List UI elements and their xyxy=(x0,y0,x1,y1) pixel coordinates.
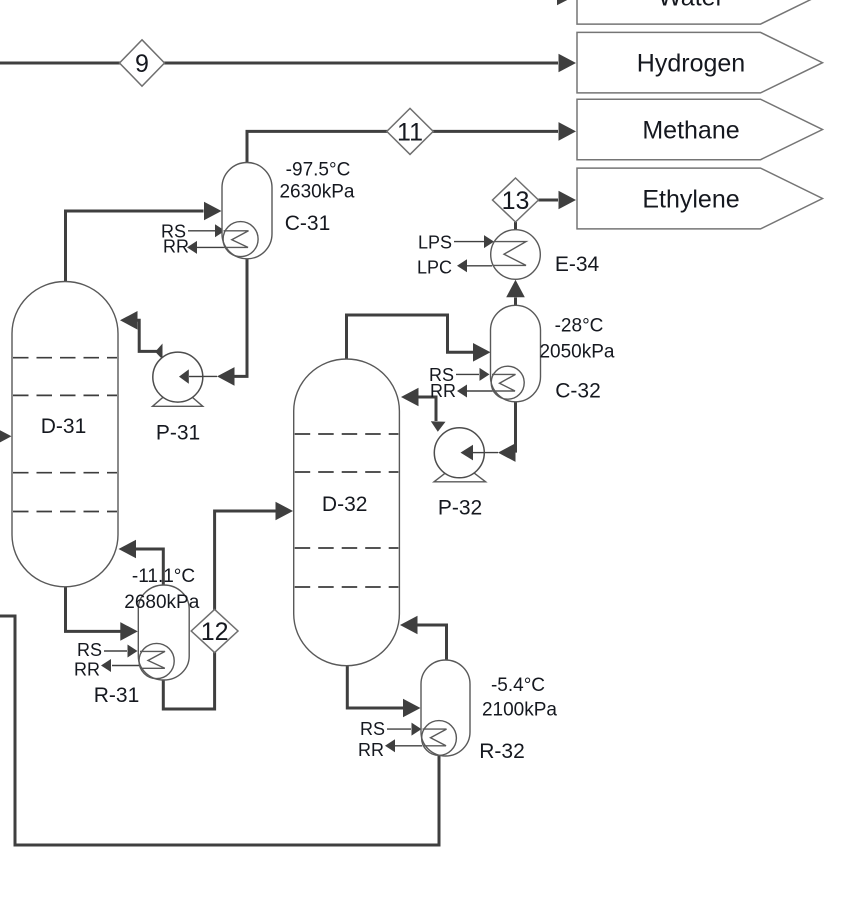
arrowhead stream 11 into Methane xyxy=(559,122,577,141)
node diamond 9 xyxy=(120,40,165,86)
arrowhead into C-31 feed xyxy=(204,202,222,221)
wire stream 9 to Hydrogen xyxy=(0,62,558,65)
wire RR from C-32 coil xyxy=(467,390,492,392)
pump P-31 xyxy=(153,352,203,402)
wire C-32 overhead to E-34 xyxy=(514,298,517,307)
wire R-31 vapor return to D-31 xyxy=(136,549,164,586)
arrowhead RS R-31 xyxy=(128,645,138,658)
svg-text:C-31: C-31 xyxy=(285,212,331,235)
arrowhead LPC xyxy=(457,259,467,272)
svg-text:Methane: Methane xyxy=(642,117,739,145)
wire stream 12 R-31 bottoms to D-32 feed xyxy=(163,511,276,709)
svg-text:2100kPa: 2100kPa xyxy=(482,700,557,721)
wire P-31 discharge to D-31 reflux xyxy=(137,320,162,351)
arrowhead into P-31 inlet xyxy=(217,367,235,386)
arrowhead RR R-31 xyxy=(101,659,111,672)
svg-text:C-32: C-32 xyxy=(555,380,601,403)
pump P-32 internal line and arrow xyxy=(473,452,484,454)
arrowhead RS R-32 xyxy=(412,723,422,736)
trays D-31 xyxy=(13,357,117,359)
svg-text:P-31: P-31 xyxy=(156,422,200,445)
arrowhead RS C-31 xyxy=(215,224,225,237)
banner Methane xyxy=(577,99,823,160)
svg-text:12: 12 xyxy=(201,618,229,646)
svg-text:-11.1°C: -11.1°C xyxy=(132,566,195,587)
wire RS into C-32 coil xyxy=(456,373,479,375)
reboiler vessel R-31 xyxy=(138,585,189,680)
wire E-34 to diamond 13 xyxy=(514,222,517,231)
svg-text:Hydrogen: Hydrogen xyxy=(637,50,745,78)
arrowhead P-32 reflux into D-32 xyxy=(401,388,419,407)
arrowhead D-32 bottoms into R-32 xyxy=(403,699,421,718)
svg-text:D-32: D-32 xyxy=(322,493,368,516)
wire RR from R-32 coil xyxy=(395,745,422,747)
wire P-32 discharge to D-32 reflux xyxy=(418,397,436,421)
svg-text:2680kPa: 2680kPa xyxy=(124,592,199,613)
wire C-32 bottoms to P-32 xyxy=(514,402,517,453)
banner Water xyxy=(577,0,823,24)
wire P-32 inlet thin xyxy=(474,452,498,454)
arrowhead P-32 discharge small SE xyxy=(431,421,446,432)
arrowhead LPS xyxy=(484,235,494,248)
wire LPS into E-34 xyxy=(454,241,484,243)
svg-text:D-31: D-31 xyxy=(41,415,87,438)
condenser vessel C-32 xyxy=(491,305,541,402)
arrowhead water inlet fragment xyxy=(557,0,575,5)
arrowhead RS C-32 xyxy=(480,368,490,381)
wire C-31 bottoms to P-31 xyxy=(234,258,247,376)
svg-text:-97.5°C: -97.5°C xyxy=(286,160,351,181)
wire stream 11 C-31 overhead to Methane xyxy=(247,131,558,164)
wire R-32 vapor return to D-32 xyxy=(418,625,447,661)
arrowhead RR R-32 xyxy=(385,739,395,752)
arrowhead RR C-32 xyxy=(457,385,467,398)
arrowhead into C-32 feed xyxy=(473,343,491,362)
svg-text:R-32: R-32 xyxy=(479,740,525,763)
condenser vessel C-31 xyxy=(222,163,272,259)
svg-text:RR: RR xyxy=(430,381,456,401)
svg-text:Water: Water xyxy=(658,0,724,12)
banner Hydrogen xyxy=(577,32,823,93)
coil circle C-32 xyxy=(491,366,524,399)
banner Ethylene xyxy=(577,168,823,229)
pump P-31 base xyxy=(153,397,203,407)
pump P-32 base xyxy=(434,473,486,482)
wire RR from C-31 coil xyxy=(197,246,224,248)
reboiler vessel R-32 xyxy=(421,660,470,756)
arrowhead D-31 bottoms into R-31 xyxy=(120,622,138,641)
wire D-31 bottoms to R-31 xyxy=(66,586,121,631)
wire RS into R-31 coil xyxy=(104,650,127,652)
column D-32 xyxy=(294,359,400,666)
wire P-31 inlet thin xyxy=(189,375,217,377)
svg-text:RR: RR xyxy=(74,660,100,680)
svg-text:P-32: P-32 xyxy=(438,497,482,520)
svg-text:RR: RR xyxy=(358,740,384,760)
arrowhead R-32 vapor into D-32 xyxy=(400,616,418,635)
wire RS into C-31 coil xyxy=(188,230,215,232)
wire D-32 bottoms to R-32 xyxy=(347,665,403,708)
svg-text:-28°C: -28°C xyxy=(555,316,604,337)
wire D-32 overhead to C-32 xyxy=(347,315,474,360)
svg-text:2630kPa: 2630kPa xyxy=(279,182,354,203)
wire R-32 bottoms product exit xyxy=(0,616,439,845)
svg-text:E-34: E-34 xyxy=(555,253,600,276)
wire D-31 overhead to C-31 xyxy=(66,211,204,283)
svg-text:R-31: R-31 xyxy=(94,684,140,707)
pump P-31 internal line and arrow xyxy=(189,376,203,378)
arrowhead stream 9 into Hydrogen xyxy=(559,54,577,73)
wire stream 13 diamond to Ethylene xyxy=(539,199,559,202)
arrowhead C-32 overhead into E-34 xyxy=(506,280,525,298)
wire RS into R-32 coil xyxy=(387,728,411,730)
node diamond 13 xyxy=(493,178,539,222)
svg-text:RS: RS xyxy=(360,719,385,739)
node diamond 11 xyxy=(387,108,433,154)
arrowhead pump P-31 center xyxy=(179,369,191,385)
heat exchanger E-34 xyxy=(491,230,541,280)
column D-31 xyxy=(12,282,118,587)
arrowhead stream 12 into D-32 xyxy=(276,502,294,521)
trays D-32 xyxy=(295,433,399,435)
svg-text:LPS: LPS xyxy=(418,233,452,253)
arrowhead RR C-31 xyxy=(187,241,197,254)
arrowhead pump P-32 center xyxy=(460,445,472,461)
arrowhead R-31 vapor into D-31 xyxy=(119,540,137,559)
svg-text:2050kPa: 2050kPa xyxy=(539,342,614,363)
arrowhead stream 13 into Ethylene xyxy=(559,191,577,210)
svg-text:RS: RS xyxy=(77,640,102,660)
node diamond 12 xyxy=(191,609,238,652)
svg-text:-5.4°C: -5.4°C xyxy=(491,675,545,696)
svg-text:11: 11 xyxy=(397,118,423,146)
svg-text:RR: RR xyxy=(163,237,189,257)
wire LPC from E-34 xyxy=(467,265,492,267)
svg-text:13: 13 xyxy=(502,187,530,215)
svg-text:LPC: LPC xyxy=(417,258,452,278)
arrowhead feed into D-31 xyxy=(0,427,12,446)
arrowhead into P-32 inlet xyxy=(498,443,516,462)
wire RR from R-31 coil xyxy=(112,665,140,667)
coil circle R-31 xyxy=(139,643,174,678)
arrowhead P-31 discharge small SE xyxy=(155,344,162,360)
coil circle R-32 xyxy=(422,721,457,756)
coil circle C-31 xyxy=(223,222,258,257)
pump P-32 xyxy=(434,428,484,478)
arrowhead P-31 reflux into D-31 xyxy=(120,311,138,330)
svg-text:Ethylene: Ethylene xyxy=(642,186,739,214)
svg-text:9: 9 xyxy=(135,50,149,78)
